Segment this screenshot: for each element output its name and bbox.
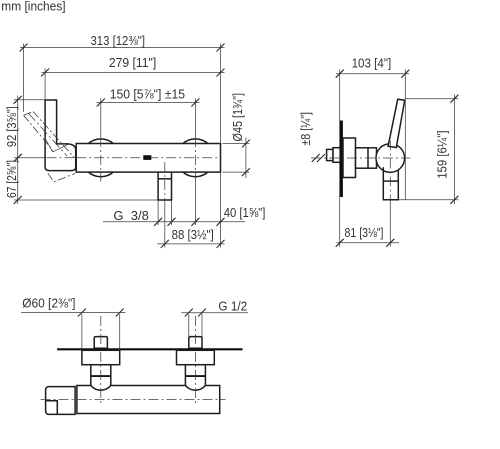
dimension 159 dimension line xyxy=(453,95,455,205)
lever-top extension line (vertical) xyxy=(404,70,406,201)
connection nut 2 xyxy=(189,337,202,349)
dimension 150 tick left xyxy=(97,99,105,107)
dimension 88 tick right xyxy=(217,240,225,248)
svg-text:88 [3½"]: 88 [3½"] xyxy=(172,227,214,242)
connection 1 centreline xyxy=(100,316,102,405)
svg-text:Ø45 [1¾"]: Ø45 [1¾"] xyxy=(230,93,245,142)
81 extension line (below pipe) xyxy=(389,200,391,247)
svg-text:67 [2⅝"]: 67 [2⅝"] xyxy=(4,160,19,198)
svg-text:313 [12⅜"]: 313 [12⅜"] xyxy=(91,33,146,48)
svg-text:279 [11"]: 279 [11"] xyxy=(109,55,156,70)
lever handle alternate position foot xyxy=(48,173,75,182)
escutcheon 1 (top view) xyxy=(82,350,120,364)
lever alternate position axis centreline xyxy=(28,113,67,156)
dimension 103 tick left xyxy=(336,70,344,78)
dimension 45 dimension line xyxy=(245,138,247,179)
outlet pipe right edge extension xyxy=(171,200,173,225)
top view horizontal centreline xyxy=(41,399,226,401)
outlet pipe bottom edge xyxy=(157,199,172,201)
svg-text:81 [3⅛"]: 81 [3⅛"] xyxy=(345,225,384,240)
svg-text:G 1/2: G 1/2 xyxy=(218,298,247,313)
connection nipple outer xyxy=(327,149,333,160)
escutcheon 2 (top view) xyxy=(177,350,215,364)
wall extension line xyxy=(339,70,341,247)
side view vertical centreline xyxy=(389,141,391,200)
dimension 150 left extension line xyxy=(100,99,102,138)
svg-text:40 [1⅝"]: 40 [1⅝"] xyxy=(224,205,266,220)
dimension 159 bottom extension line xyxy=(398,199,458,201)
escutcheon circle 2 xyxy=(177,139,215,177)
shared right extension line (313/279) xyxy=(220,44,222,144)
dimension 81 tick right xyxy=(386,239,394,247)
dimension 313 dimension line xyxy=(20,47,225,49)
connector 2 shoulder line (thick) xyxy=(185,375,205,377)
connector 1 shoulder line (thick) xyxy=(91,375,111,377)
tick at lever top (92) xyxy=(14,96,22,104)
dimension 88 dimension line xyxy=(157,243,225,245)
G 1/2 right extension line xyxy=(201,314,203,337)
body horizontal centreline xyxy=(14,157,46,159)
lever handle with cartridge cap (solid position) xyxy=(45,100,76,171)
outlet pipe (side) bottom edge xyxy=(383,199,399,201)
outlet pipe left edge extension xyxy=(157,200,159,225)
dimension 159 top extension line xyxy=(405,98,458,100)
svg-text:Ø60 [2⅜"]: Ø60 [2⅜"] xyxy=(22,296,75,311)
svg-text:150 [5⅞"] ±15: 150 [5⅞"] ±15 xyxy=(110,86,185,101)
outlet pipe (side) joint line xyxy=(383,180,398,182)
G 3/8 / 40 dimension line xyxy=(103,221,245,223)
shower hose outlet pipe right edge xyxy=(171,172,173,200)
wall plate (thick) xyxy=(340,121,343,198)
connection nut 1 xyxy=(94,337,107,349)
Ø60 right extension line xyxy=(119,314,121,348)
outlet pipe joint line xyxy=(158,178,171,180)
escutcheon (side) xyxy=(343,138,356,178)
valve housing (top view) xyxy=(46,387,76,415)
dimension 150 right extension line xyxy=(194,99,196,138)
valve body circle xyxy=(376,144,405,173)
lever handle (side) xyxy=(388,99,405,147)
lever handle alternate position (phantom) top edge xyxy=(24,112,34,116)
left vertical dimension line (92/67) xyxy=(17,96,19,205)
tick at hose outlet (67) xyxy=(14,196,22,204)
cartridge shoulder lines xyxy=(45,139,68,152)
G 1/2 leader line xyxy=(181,312,248,314)
connector 1 with dome bottom xyxy=(91,365,111,391)
dimension ±8 tick 1 xyxy=(312,154,320,162)
G 3/8 tick right xyxy=(168,218,176,226)
svg-text:mm [inches]: mm [inches] xyxy=(1,0,65,13)
dimension 159 tick top xyxy=(450,95,458,103)
dimension 150 tick right xyxy=(191,99,199,107)
dimension 279 left extension line xyxy=(44,69,46,100)
circle 2 lower extension line xyxy=(194,180,196,226)
outlet pipe lower extension line xyxy=(164,200,166,248)
dimension 313 left extension line xyxy=(23,44,25,113)
circle 2 vertical centreline xyxy=(194,137,196,180)
Ø60 left extension line xyxy=(81,314,83,348)
dimension ±8 tick 2 xyxy=(317,154,325,162)
dimension 67 bottom extension line xyxy=(14,199,158,201)
dimension Ø60 tick left xyxy=(78,309,86,317)
dimension 40 tick left xyxy=(191,218,199,226)
dimension 45 top extension line xyxy=(223,143,250,145)
connector 2 with dome bottom xyxy=(185,365,205,391)
svg-text:G3/8: G3/8 xyxy=(113,208,148,223)
dimension 81 dimension line xyxy=(337,242,400,244)
dimension 81 tick left xyxy=(336,239,344,247)
bar right edge lower extension xyxy=(220,172,222,247)
top-view body bar xyxy=(77,386,220,414)
dimension 279 tick left xyxy=(41,69,49,77)
lever handle alternate position left edge xyxy=(24,115,53,150)
dimension 159 tick bottom xyxy=(450,196,458,204)
dimension Ø60 tick right xyxy=(116,309,124,317)
dimension Ø60 dimension line xyxy=(21,312,126,314)
side view horizontal centreline xyxy=(311,157,411,159)
dimension 103 tick right xyxy=(401,70,409,78)
shower hose outlet pipe left edge xyxy=(157,172,159,200)
mixer body bar xyxy=(76,144,220,173)
dimension 150 dimension line xyxy=(97,102,200,104)
dimension 313 tick left xyxy=(20,44,28,52)
G 1/2 tick right xyxy=(198,309,206,317)
body tube joint line xyxy=(367,148,369,168)
label window (black mark) xyxy=(143,155,151,160)
tick at centreline xyxy=(14,154,22,162)
G 1/2 left extension line xyxy=(188,314,190,337)
dimension 279 tick right xyxy=(217,69,225,77)
G 3/8 tick left xyxy=(154,218,162,226)
outlet pipe centreline xyxy=(164,162,166,200)
dimension 279 dimension line xyxy=(42,72,225,74)
wall line (thick) xyxy=(57,348,242,350)
dimension 40 tick right xyxy=(217,218,225,226)
outlet pipe (side) right edge xyxy=(397,170,399,200)
circle 1 vertical centreline xyxy=(100,137,102,182)
svg-text:±8 [¼"]: ±8 [¼"] xyxy=(298,112,313,146)
dimension 313 tick right xyxy=(217,44,225,52)
lever handle alternate position right edge xyxy=(33,112,74,158)
dimension 45 bottom extension line xyxy=(223,171,250,173)
centreline across cartridge cap xyxy=(47,157,77,159)
dimension 103 dimension line xyxy=(336,73,409,75)
dimension 45 tick top xyxy=(242,140,250,148)
outlet pipe (side) left edge xyxy=(382,167,384,200)
connection nipple inner xyxy=(333,148,340,163)
connection 2 centreline xyxy=(194,316,196,405)
svg-text:103 [4"]: 103 [4"] xyxy=(352,56,392,71)
lever end cap (top view) xyxy=(46,401,57,415)
dimension 92 top extension line xyxy=(14,99,45,101)
G 1/2 tick left xyxy=(185,309,193,317)
svg-text:159 [6¼"]: 159 [6¼"] xyxy=(435,130,450,178)
svg-text:92 [3⅝"]: 92 [3⅝"] xyxy=(4,106,19,147)
body tube xyxy=(356,148,377,168)
dimension 45 tick bottom xyxy=(242,168,250,176)
escutcheon circle 1 xyxy=(82,139,120,177)
dimension 88 tick left xyxy=(161,240,169,248)
body bar centreline (inside) xyxy=(76,157,220,159)
